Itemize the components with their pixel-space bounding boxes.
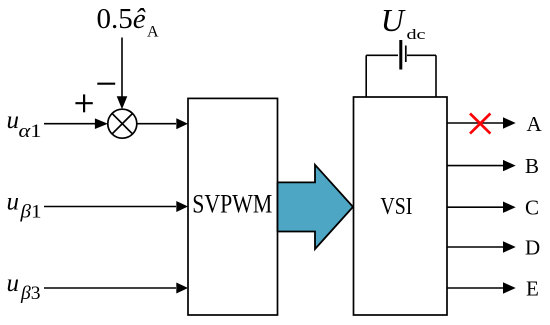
output wire E <box>447 287 504 289</box>
svg-text:0.5ê: 0.5ê <box>97 3 146 35</box>
label u_alpha1 <box>7 107 42 142</box>
output wire A <box>447 122 504 124</box>
block SVPWM <box>188 98 278 315</box>
svg-text:u: u <box>7 270 20 297</box>
output wire B <box>447 165 504 167</box>
wire left segment <box>366 54 398 56</box>
svg-text:VSI: VSI <box>380 194 412 220</box>
svg-text:β3: β3 <box>20 283 41 304</box>
arrowhead C <box>503 202 516 213</box>
svg-text:A: A <box>147 24 159 41</box>
wire: vertical from 0.5e_A down to summing junction <box>121 38 123 99</box>
battery short thin plate <box>405 46 407 63</box>
svg-text:u: u <box>7 189 20 216</box>
battery long thick plate <box>399 40 402 70</box>
plus sign <box>75 94 92 112</box>
svg-text:u: u <box>7 107 20 134</box>
wire: u_beta3 to SVPWM <box>44 287 176 289</box>
battery / DC source symbol <box>366 40 436 97</box>
wire: right drop to VSI <box>435 55 437 97</box>
arrowhead into SVPWM (input 1) <box>176 118 188 129</box>
svg-text:U: U <box>381 2 406 38</box>
arrowhead into SVPWM (input 3) <box>176 283 188 294</box>
svg-text:D: D <box>525 236 540 260</box>
output wire D <box>447 246 504 248</box>
block VSI <box>354 97 448 315</box>
svg-text:α1: α1 <box>19 121 42 142</box>
arrowhead into summing junction (down) <box>117 96 128 109</box>
wire: u_beta1 to SVPWM <box>44 206 176 208</box>
arrowhead into summing junction (right) <box>95 118 108 129</box>
minus sign <box>97 83 115 85</box>
wire: u_alpha1 to summing junction <box>44 123 96 125</box>
big teal arrow SVPWM -> VSI <box>278 165 354 249</box>
summing junction circle with X <box>108 109 137 138</box>
output wire C <box>447 206 504 208</box>
arrowhead into SVPWM (input 2) <box>176 201 188 212</box>
wire: summing junction to SVPWM <box>137 123 176 125</box>
label u_beta3 <box>7 270 41 304</box>
wire right segment <box>407 54 436 56</box>
svg-text:A: A <box>527 112 543 136</box>
svg-text:β1: β1 <box>19 202 41 223</box>
arrowhead A <box>503 117 516 128</box>
svg-text:dc: dc <box>407 27 426 43</box>
svg-text:B: B <box>525 154 539 178</box>
arrowhead D <box>503 241 516 252</box>
svg-text:SVPWM: SVPWM <box>192 189 272 218</box>
label u_beta1 <box>7 189 42 223</box>
red X fault mark on phase A <box>470 114 490 134</box>
arrowhead E <box>503 282 516 293</box>
svg-text:E: E <box>526 277 539 301</box>
label U_dc <box>381 2 426 43</box>
wire: left drop to VSI <box>365 55 367 97</box>
label 0.5e_A <box>97 3 160 40</box>
svg-text:C: C <box>525 196 539 220</box>
arrowhead B <box>503 160 516 171</box>
